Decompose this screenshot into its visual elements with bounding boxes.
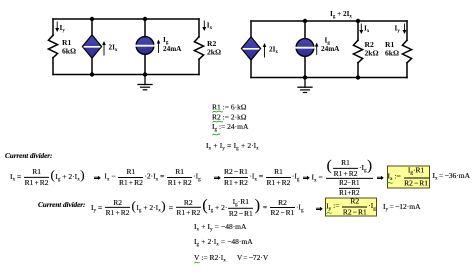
ground (left circuit) (138, 75, 152, 90)
svg-text:2kΩ: 2kΩ (207, 48, 221, 57)
svg-text:6kΩ: 6kΩ (385, 49, 399, 58)
given value R1 := 6 kOhm (212, 103, 246, 111)
given value Ig := 24 mA (212, 123, 248, 133)
label Ig 24mA (right) (321, 37, 340, 54)
wire current source Ig branch (left circuit) (144, 19, 146, 75)
svg-text:Ix: Ix (207, 22, 213, 32)
svg-text:Ix: Ix (364, 25, 370, 35)
label Ix current arrow (left circuit) (202, 21, 212, 31)
wire right branch (left circuit) (198, 19, 200, 75)
node dot bottom Ig branch (right) (303, 75, 307, 79)
independent current source Ig 24mA circle (left circuit) (135, 37, 155, 55)
implies arrow 3 (303, 168, 310, 186)
label R1 6kOhm (left) (62, 38, 76, 56)
equation line 2 group 1 (91, 198, 166, 216)
equation line 1 group C (223, 168, 300, 186)
wire bottom (right circuit) (251, 77, 407, 79)
label R2 2kOhm (right) (365, 40, 379, 58)
wire top (right circuit) (251, 20, 407, 22)
result Ig + 2Ix = -48 mA (194, 238, 253, 248)
equation line 1 group D: Ix = big fraction (312, 159, 375, 197)
svg-text:2Ix: 2Ix (269, 46, 278, 56)
wire R1 branch right edge (right circuit) (406, 21, 408, 78)
dependent current source 2Ix diamond (left circuit) (82, 35, 101, 58)
result Iy = -12 mA (383, 203, 421, 213)
label R1 6kOhm (right) (385, 40, 399, 58)
implies arrow 1 (94, 168, 101, 186)
wire top (left circuit) (53, 18, 199, 20)
implies arrow 4 (377, 168, 384, 186)
label R2 2kOhm (left) (207, 39, 221, 57)
result Ix + Iy = -48 mA (194, 223, 246, 233)
svg-text:2Ix: 2Ix (109, 44, 118, 54)
wire Ig branch (right circuit) (304, 21, 306, 78)
current divider label 2 (38, 201, 85, 209)
resistor R1 6k (left circuit) (48, 35, 57, 58)
resistor R2 2k (left circuit) (194, 37, 203, 60)
equation line 1 group A: Ix = R1/(R1+R2)(Ig+2Ix) (10, 168, 85, 186)
arrow for 2Ix (right) (263, 43, 267, 57)
svg-text:2kΩ: 2kΩ (365, 49, 379, 58)
node dot top of Ig source (left) (143, 17, 147, 21)
svg-text:Iy: Iy (395, 25, 401, 35)
node dot bottom of dep source (left) (90, 72, 94, 76)
implies arrow line 2 (316, 199, 323, 217)
given value R2 := 2 kOhm (212, 113, 246, 121)
ground (right circuit) (298, 78, 312, 93)
wire R2 branch (right circuit) (357, 21, 359, 78)
resistor R2 2k (right circuit) (353, 40, 362, 63)
current divider label 1 (5, 152, 52, 160)
circuits SVG layer (0, 0, 474, 100)
arrow for Ig (left) (157, 40, 161, 53)
implies arrow 2 (214, 168, 221, 186)
equation line 1 group B (104, 168, 200, 186)
svg-text:24mA: 24mA (163, 45, 182, 53)
arrow for Ig (right) (315, 43, 319, 55)
node dot bottom of Ig source (left) (143, 72, 147, 76)
svg-text:Iy: Iy (60, 24, 66, 34)
highlighted result box Ix (387, 165, 430, 188)
label Ix current arrow (right circuit) (359, 24, 370, 34)
wire dep source branch (right circuit) (250, 21, 252, 78)
label Iy current arrow (left circuit) (55, 22, 65, 34)
definition V := R2 Ix and result V = -72 V (194, 254, 268, 264)
KCL equation Ix + Iy = Ig + 2 Ix (206, 142, 259, 152)
label Iy current arrow (right circuit) (395, 24, 407, 34)
arrow for 2Ix (left) (102, 41, 106, 55)
node dot top Ig branch (right) (303, 19, 307, 23)
svg-text:24mA: 24mA (321, 45, 340, 53)
equation line 2 group 3 (263, 199, 304, 217)
highlighted result box Iy (325, 197, 377, 216)
wire left branch (left circuit) (52, 19, 54, 75)
node dot top of dep source (left) (90, 17, 94, 21)
label Ig 24mA (left) (163, 36, 182, 53)
wire dependent source branch (left circuit) (91, 19, 93, 75)
independent current source Ig 24mA circle (right circuit) (295, 39, 315, 57)
node dot top R2 branch (right) (356, 19, 360, 23)
node dot bottom R2 branch (right) (356, 75, 360, 79)
dependent current source 2Ix diamond (right circuit) (241, 37, 260, 60)
resistor R1 6k (right circuit) (402, 40, 411, 63)
result Ix = -36 mA (433, 172, 471, 182)
wire bottom (left circuit) (53, 74, 199, 76)
equation line 2 group 2 (169, 197, 261, 217)
svg-text:6kΩ: 6kΩ (62, 47, 76, 56)
svg-text:Ig + 2Ix: Ig + 2Ix (330, 10, 352, 20)
